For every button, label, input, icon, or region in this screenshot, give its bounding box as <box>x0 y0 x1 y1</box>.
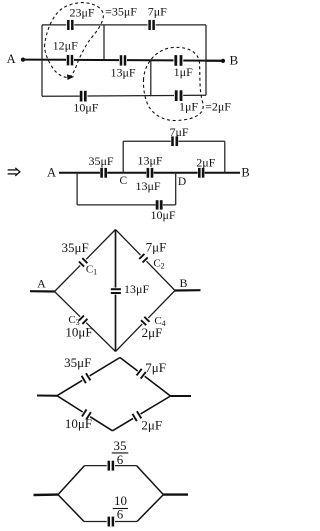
svg-text:10μF: 10μF <box>73 100 98 114</box>
implies arrow <box>8 168 20 176</box>
wire: right lead bold <box>171 395 192 397</box>
svg-text:35μF: 35μF <box>88 154 113 168</box>
svg-text:23μF: 23μF <box>69 5 94 19</box>
wire: diamond edges bold <box>57 358 171 431</box>
capacitor 7uF top <box>150 20 154 30</box>
svg-text:35: 35 <box>114 438 127 453</box>
edge A-Bo with gap for C3 <box>55 292 81 317</box>
capacitor 10uF <box>81 91 85 102</box>
svg-text:1μF: 1μF <box>174 65 193 79</box>
edge L-T with gap for 35uF <box>57 380 82 395</box>
svg-text:C2: C2 <box>153 257 164 270</box>
edge L-Bo with gap for 10uF <box>57 396 83 412</box>
wire: main A-B (bold, interrupted by caps) <box>23 60 223 61</box>
edge Bo-B with gap for C4 <box>116 324 143 351</box>
wire: top loop thin <box>123 141 225 173</box>
wire: left lead bold <box>34 493 59 496</box>
wire: left lead bold <box>37 395 57 397</box>
capacitor 2uF <box>199 168 203 178</box>
capacitor 10uF fig4 <box>82 409 91 419</box>
svg-text:10μF: 10μF <box>65 416 92 431</box>
capacitor 23uF <box>68 20 72 30</box>
svg-text:A: A <box>7 52 16 66</box>
svg-text:13μF: 13μF <box>110 66 135 80</box>
svg-text:2μF: 2μF <box>141 418 162 433</box>
capacitor 1uF upper <box>176 55 181 66</box>
node A dot <box>21 58 25 62</box>
edge A-T with gap for C1 <box>55 265 81 291</box>
capacitor C2 7uF <box>139 254 148 263</box>
svg-text:C: C <box>119 175 127 187</box>
wire: B stub <box>206 60 223 62</box>
svg-text:35μF: 35μF <box>61 240 88 255</box>
svg-text:12μF: 12μF <box>53 39 78 53</box>
svg-text:B: B <box>229 53 238 68</box>
svg-text:=35μF: =35μF <box>105 5 137 19</box>
capacitor 13uF <box>121 55 125 65</box>
svg-text:2μF: 2μF <box>142 325 163 340</box>
wire: top edge thin <box>84 466 137 522</box>
svg-text:D: D <box>178 176 186 188</box>
svg-text:A: A <box>47 166 56 180</box>
dashed ellipse grouping 1uF+1uF <box>143 47 203 120</box>
wire: diamond edges thin <box>55 230 176 352</box>
capacitor 12uF <box>68 55 72 66</box>
capacitor 13uF middle (horizontal plates) <box>111 289 121 293</box>
svg-text:7μF: 7μF <box>148 5 167 19</box>
svg-text:10μF: 10μF <box>150 208 175 222</box>
arrowhead on ellipse 1 <box>67 74 74 80</box>
capacitor 10/6 <box>109 517 113 527</box>
wire: junction vertical top-to-main at x=104 <box>103 25 105 60</box>
wire: left vertical <box>41 25 43 96</box>
wire: main A-B bold <box>59 172 240 174</box>
wire: middle vertical with cap gap <box>115 230 117 352</box>
svg-text:6: 6 <box>117 507 124 522</box>
edge T-R with gap for 7uF <box>120 358 138 372</box>
svg-text:7μF: 7μF <box>145 360 166 375</box>
capacitor 2uF fig4 <box>133 411 142 421</box>
svg-text:7μF: 7μF <box>169 125 188 139</box>
wire: bottom edge thin <box>84 521 107 523</box>
capacitor 35uF fig4 <box>82 373 91 383</box>
svg-text:B: B <box>179 276 187 290</box>
capacitor 7uF <box>173 136 177 146</box>
wire: hexagon slants bold <box>58 466 163 522</box>
svg-text:13μF: 13μF <box>137 154 162 168</box>
svg-text:=2μF: =2μF <box>205 100 231 114</box>
svg-text:2μF: 2μF <box>196 156 215 170</box>
wire: junction vertical main-to-bottom at x=150.8 <box>150 60 152 95</box>
dashed ellipse grouping 23uF+12uF <box>45 3 104 78</box>
wire: top branch (thin) <box>42 25 223 96</box>
wire: right lead bold <box>163 493 188 495</box>
svg-text:10μF: 10μF <box>65 324 92 339</box>
capacitor 10uF <box>157 200 161 209</box>
capacitor 7uF fig4 <box>137 369 146 379</box>
svg-text:1μF: 1μF <box>179 100 198 114</box>
edge Bo-R with gap for 2uF <box>113 418 134 430</box>
wire: right vertical <box>205 25 207 95</box>
svg-text:A: A <box>37 277 46 291</box>
svg-text:13μF: 13μF <box>124 282 149 296</box>
capacitor 13uF <box>148 168 152 178</box>
capacitor C1 35uF (tilted plates) <box>79 258 88 267</box>
wire: bottom branch <box>42 95 80 97</box>
capacitor 1uF lower <box>176 90 181 101</box>
wire: bottom loop thin <box>77 173 176 205</box>
capacitor 35uF <box>102 168 106 178</box>
wire: B lead bold <box>175 289 201 291</box>
svg-text:35μF: 35μF <box>64 355 91 370</box>
svg-text:13μF: 13μF <box>135 179 160 193</box>
capacitor C3 10uF <box>79 316 88 324</box>
capacitor C4 2uF <box>141 317 150 325</box>
wire: A lead bold <box>30 290 55 292</box>
svg-text:6: 6 <box>117 452 124 467</box>
edge T-B with gap for C2 <box>116 230 141 256</box>
svg-text:B: B <box>241 166 249 180</box>
capacitor 35/6 <box>109 461 113 471</box>
svg-text:7μF: 7μF <box>146 240 167 255</box>
node B dot <box>221 59 225 63</box>
svg-text:C1: C1 <box>86 263 97 276</box>
